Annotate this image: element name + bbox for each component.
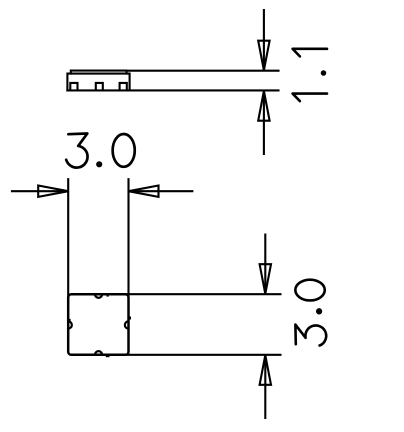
pin 2 (center pad) — [96, 83, 103, 91]
upper extension line from square top edge — [124, 293, 282, 295]
decimal point (rotated text) — [317, 309, 321, 313]
left dimension line (horizontal) — [11, 190, 68, 192]
digit 0 — [113, 134, 135, 167]
dimension text "3.0" horizontal — [66, 134, 135, 168]
package body outline, side view — [67, 74, 129, 91]
digit 1 (top) — [293, 49, 327, 57]
tick mark on right edge — [129, 317, 131, 320]
lower arrowhead (open triangle pointing up) — [258, 91, 269, 121]
right arrowhead (open triangle pointing left) — [129, 186, 159, 197]
digit 3 (rotated) — [295, 325, 326, 346]
extension line from body bottom to height dimension — [67, 89, 278, 91]
upper dimension line (vertical) — [264, 234, 266, 294]
right edge notch (half circle) — [125, 321, 129, 328]
dimension text "1.1" rotated — [293, 49, 327, 101]
right dimension line (horizontal) — [129, 190, 194, 192]
upper dimension line (vertical) — [263, 9, 265, 70]
left extension line — [67, 178, 69, 298]
lid (cap) of package, side view — [71, 71, 127, 74]
tick mark on top edge — [107, 295, 109, 297]
lower dimension line (vertical) — [264, 355, 266, 419]
digit 1 (bottom) — [293, 94, 327, 102]
left arrowhead (open triangle pointing right) — [38, 186, 68, 197]
top edge index notch (half circle) — [95, 294, 102, 298]
package body outline, top view (rounded square) — [68, 294, 128, 355]
lower extension line from square bottom edge — [124, 354, 282, 356]
digit 0 (rotated) — [295, 280, 324, 301]
upper arrowhead (open triangle pointing down) — [260, 264, 271, 294]
tick mark on bottom edge — [106, 355, 110, 357]
decimal point — [97, 162, 101, 166]
pin 3 (right pad) — [120, 83, 127, 91]
decimal point — [322, 71, 326, 75]
digit 3 — [66, 134, 87, 168]
bottom edge index notch (half circle) — [95, 351, 102, 355]
left edge notch (half circle) — [68, 321, 72, 328]
upper arrowhead (open triangle pointing down) — [258, 41, 269, 71]
right extension line — [127, 178, 129, 298]
lower dimension line (vertical) — [263, 91, 265, 155]
lower arrowhead (open triangle pointing up) — [260, 355, 271, 385]
extension line from lid top to height dimension — [127, 70, 279, 72]
tick mark on left edge — [69, 319, 71, 321]
pin 1 (left pad) — [70, 83, 77, 91]
dimension text "3.0" rotated — [295, 280, 326, 346]
